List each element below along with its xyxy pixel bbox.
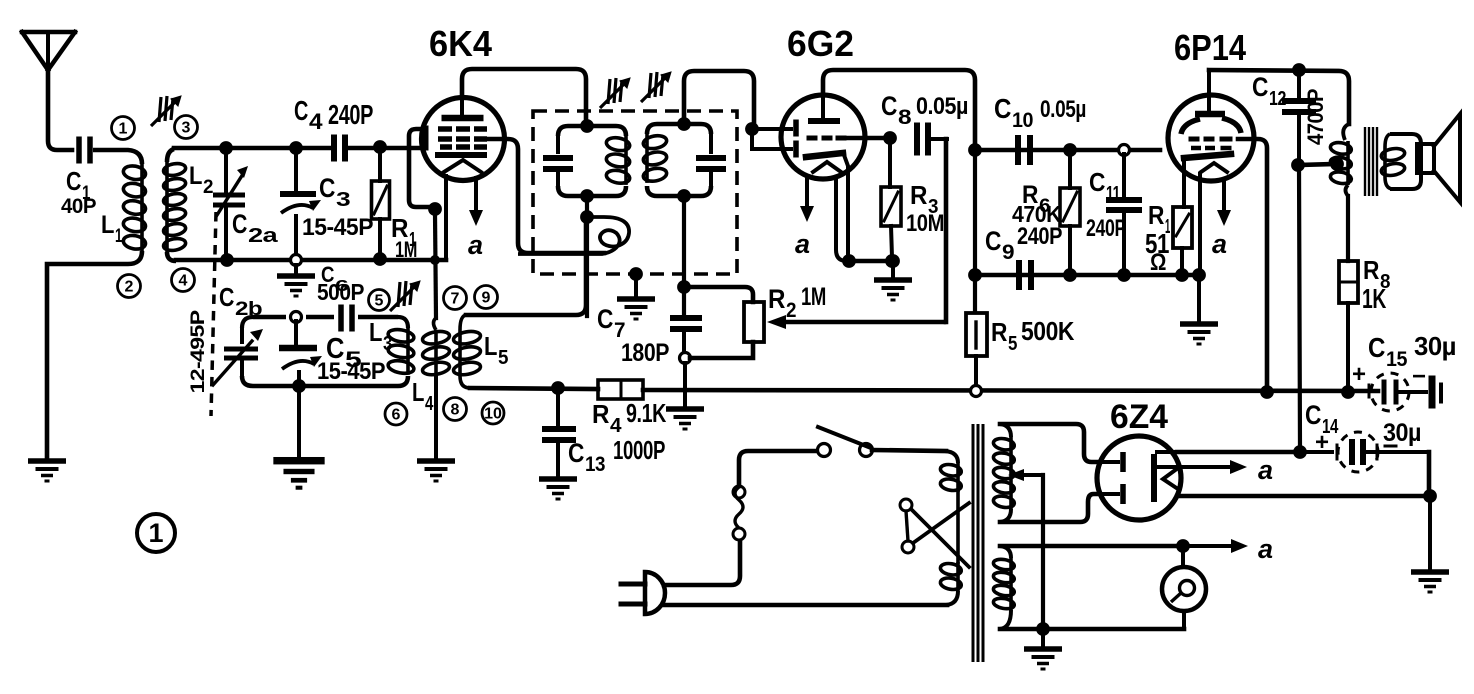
wire HV bottom to plate2 <box>1000 494 1099 522</box>
svg-text:−: − <box>1412 363 1426 390</box>
6P14 heater <box>1201 163 1227 172</box>
svg-text:C: C <box>319 173 335 203</box>
wire center tap to ground bus <box>1041 475 1045 629</box>
wire C7 to ground <box>683 363 687 407</box>
6K4 cathode <box>435 152 487 158</box>
svg-text:240P: 240P <box>1086 215 1126 242</box>
gang line (dashed) C2a-C2b <box>211 212 216 416</box>
junction R3 bottom <box>885 254 899 268</box>
open junction R5 bottom <box>971 386 982 397</box>
capacitor C14 <box>1304 432 1429 472</box>
terminal 4 <box>172 269 195 292</box>
HV secondary winding <box>993 424 1016 522</box>
wire tank2 top to 6G2 diode <box>684 71 754 127</box>
junction C12 bottom <box>1291 158 1305 172</box>
inductor L1 <box>122 164 146 251</box>
open junction C7 bottom <box>680 353 691 364</box>
svg-text:+: + <box>1352 361 1366 388</box>
wire L4 to ground <box>434 376 438 459</box>
open junction C3 bottom <box>291 255 302 266</box>
tube 6P14 envelope <box>1168 95 1254 181</box>
svg-text:3: 3 <box>336 189 350 211</box>
svg-text:R: R <box>991 317 1008 347</box>
wire 6P14 cathode to R7 <box>1182 163 1186 207</box>
svg-text:0.05µ: 0.05µ <box>916 93 968 120</box>
label R8 1K <box>1362 255 1390 314</box>
resistor R8 <box>1339 261 1358 388</box>
label 30u (C14) <box>1383 419 1421 447</box>
svg-text:a: a <box>1258 455 1273 485</box>
junction R8 bottom <box>1341 385 1355 399</box>
svg-text:C: C <box>881 91 897 121</box>
svg-text:5: 5 <box>375 293 384 310</box>
capacitor C7 <box>670 315 702 352</box>
power transformer core <box>973 424 983 662</box>
wire 6Z4 cathode out <box>1157 450 1177 454</box>
output transformer secondary <box>1380 134 1421 189</box>
6G2 filament arrow a <box>800 176 814 222</box>
svg-text:4: 4 <box>425 393 434 415</box>
svg-text:3: 3 <box>182 120 191 137</box>
junction tank2 top <box>677 117 691 131</box>
IF tank 1 bottom wire <box>558 186 626 196</box>
svg-text:a: a <box>795 229 810 259</box>
6G2 grid row <box>807 136 847 141</box>
wire C10 row <box>979 148 1160 153</box>
svg-text:1000P: 1000P <box>613 435 665 465</box>
svg-text:L: L <box>484 331 498 361</box>
ground (6P14 cathode rail) <box>1180 275 1218 346</box>
svg-text:a: a <box>1212 229 1227 259</box>
ground (power) <box>1024 629 1062 671</box>
svg-text:11: 11 <box>1106 183 1120 205</box>
junction R7 bottom <box>1175 268 1189 282</box>
trimmer capacitor C5 <box>279 321 322 382</box>
wire AVC from C8 <box>944 139 949 322</box>
svg-text:2: 2 <box>786 299 796 322</box>
resistor R3 <box>881 142 901 257</box>
capacitor C9 <box>1016 260 1034 290</box>
svg-text:a: a <box>1258 534 1273 564</box>
wire L5 top to detector (via x586) <box>466 222 586 315</box>
svg-text:240P: 240P <box>328 99 373 130</box>
junction 6G2 grid node <box>883 131 897 145</box>
wire antenna to C1 <box>48 70 72 150</box>
svg-text:a: a <box>468 230 483 260</box>
svg-text:4: 4 <box>610 415 622 437</box>
IF tank 2 capacitor <box>696 134 726 186</box>
svg-text:+: + <box>1315 429 1329 456</box>
wire C5 to ground <box>297 390 301 458</box>
label C13 1000P <box>568 435 665 476</box>
junction tank1 bottom <box>580 189 594 203</box>
svg-text:R: R <box>768 284 785 314</box>
inductor L3 <box>387 328 415 375</box>
svg-text:5: 5 <box>1008 333 1017 355</box>
junction R6 bottom <box>1063 268 1077 282</box>
junction R6 top <box>1063 143 1077 157</box>
svg-text:1K: 1K <box>1362 283 1386 314</box>
6K4 screen bracket wire <box>409 129 432 207</box>
terminal 1 <box>112 117 135 140</box>
svg-text:240P: 240P <box>1017 223 1062 250</box>
6P14 anode <box>1195 70 1225 117</box>
svg-text:Ω: Ω <box>1150 249 1166 276</box>
6K4 filament arrow a <box>469 178 483 226</box>
6Z4 plate 2 <box>1099 484 1126 504</box>
junction C12 top <box>1292 63 1306 77</box>
svg-text:R: R <box>1148 200 1165 230</box>
junction grid return 6P14 <box>1260 385 1274 399</box>
label R7 51ohm <box>1145 200 1170 276</box>
svg-text:R: R <box>592 399 610 429</box>
wire 6K4 plate lead up <box>462 69 586 126</box>
alignment mark (IF tank 1) <box>600 78 630 108</box>
terminal 6 <box>385 403 407 425</box>
svg-text:1: 1 <box>115 226 123 247</box>
terminal 9 <box>475 286 498 309</box>
svg-text:C: C <box>568 438 584 468</box>
svg-text:L: L <box>101 211 114 239</box>
svg-text:1: 1 <box>119 121 128 138</box>
junction 6P14 ground node <box>1192 268 1206 282</box>
voltage selector link <box>900 499 969 567</box>
capacitor C10 <box>1015 135 1033 165</box>
label C15 30u <box>1368 331 1456 371</box>
6P14 filament arrow a <box>1217 180 1231 226</box>
variable capacitor C2a <box>213 152 248 257</box>
wire rectifier return <box>1181 494 1426 499</box>
junction R2 top feed <box>677 280 691 294</box>
svg-text:2: 2 <box>125 279 134 296</box>
label C6 500P <box>317 262 364 305</box>
terminal 7 <box>444 287 467 310</box>
label C8 0.05u <box>881 91 968 129</box>
label C1 40P <box>61 166 96 218</box>
trimmer capacitor C3 <box>280 150 321 257</box>
wire L1 to ground <box>47 251 142 459</box>
IF tank 2 bottom wire <box>647 186 711 196</box>
svg-text:C: C <box>597 304 613 334</box>
wire C9 row <box>979 273 1198 278</box>
capacitor C13 <box>542 392 576 476</box>
svg-text:C: C <box>232 209 247 239</box>
label R4 9.1K <box>592 398 667 437</box>
wire tank2 to C7/R2 <box>682 196 686 315</box>
svg-text:C: C <box>1305 400 1321 430</box>
junction oscillator grid <box>428 202 442 216</box>
wire 6P14 plate top <box>1209 70 1349 124</box>
junction rail to cathode <box>430 255 440 265</box>
label C4 240P <box>294 95 373 134</box>
label C3 15-45P <box>302 173 373 241</box>
6G2 heater <box>813 162 841 172</box>
svg-text:1M: 1M <box>801 283 826 311</box>
output transformer primary <box>1330 124 1353 196</box>
svg-text:3: 3 <box>383 333 392 355</box>
wire AVC bus (R4 to C15) <box>643 390 1378 391</box>
junction C3 top <box>289 141 303 155</box>
open junction C11 top <box>1119 145 1130 156</box>
wire plug bottom to primary <box>664 603 947 608</box>
junction C2a bottom <box>220 253 234 267</box>
6Z4 heater <box>1163 468 1178 489</box>
label R2 1M <box>768 283 826 322</box>
wire HV top to plate1 <box>1000 424 1099 462</box>
wire cathode rail <box>849 259 893 264</box>
wire 6P14 heater down <box>1198 174 1202 271</box>
junction C9 left <box>968 268 982 282</box>
pilot lamp <box>1162 567 1206 611</box>
svg-text:10M: 10M <box>906 210 944 237</box>
capacitor C12 <box>1282 74 1316 162</box>
IF tank 1 coil <box>624 136 628 185</box>
wire feed to R2 <box>684 287 753 302</box>
resistor R6 <box>1060 154 1080 271</box>
svg-text:C: C <box>219 282 235 312</box>
label C7 180P <box>597 304 669 367</box>
svg-text:C: C <box>294 95 308 126</box>
junction C13 <box>551 381 565 395</box>
wire B+ vertical to rectifier <box>1299 165 1300 450</box>
svg-text:8: 8 <box>451 402 460 419</box>
svg-text:6K4: 6K4 <box>429 23 492 64</box>
inductor L5 <box>453 315 482 388</box>
svg-text:2a: 2a <box>248 225 279 247</box>
wire oscillator tank top <box>253 315 398 320</box>
label C11 240P <box>1086 167 1126 242</box>
6Z4 plate 1 <box>1099 452 1126 472</box>
capacitor C1 <box>76 137 93 164</box>
wire lamp top <box>1181 546 1185 567</box>
wire switch to primary <box>872 450 946 451</box>
capacitor C8 <box>914 123 947 156</box>
svg-text:C: C <box>994 93 1011 124</box>
wire B+ to C14 <box>1177 450 1296 455</box>
capacitor C6 plates <box>338 305 355 332</box>
svg-text:0.05µ: 0.05µ <box>1040 96 1086 123</box>
wire 6G2 plate up <box>823 70 975 146</box>
6P14 beam plates <box>1181 118 1241 134</box>
terminal 2 <box>118 275 141 298</box>
power transformer primary <box>940 451 963 605</box>
resistor R4 <box>598 380 643 399</box>
svg-text:C: C <box>1089 167 1106 197</box>
wire tank1 to tickler <box>585 196 589 222</box>
junction heater return <box>1423 489 1437 503</box>
svg-text:6Z4: 6Z4 <box>1110 398 1168 436</box>
ground (C7) <box>666 406 704 430</box>
junction C10 left <box>968 143 982 157</box>
6G2 diode plates <box>752 120 799 158</box>
junction C2a top <box>219 141 233 155</box>
junction 6G2 diode input <box>745 122 759 136</box>
junction cathode rail <box>842 254 856 268</box>
svg-text:8: 8 <box>898 106 912 129</box>
figure number 1 <box>137 514 175 552</box>
wire 6K4 oscillator grid to L4 <box>435 214 436 318</box>
ground (right/main) <box>1411 569 1449 593</box>
junction tank2 bottom <box>677 189 691 203</box>
svg-text:6: 6 <box>392 407 401 424</box>
IF tank 1 top wire <box>558 126 626 136</box>
mains plug <box>621 572 665 614</box>
terminal 5 <box>369 290 390 311</box>
label R5 500K <box>991 316 1075 355</box>
wire 6G2 grid right <box>846 136 886 141</box>
svg-text:R: R <box>910 180 928 210</box>
tube 6K4 envelope <box>422 98 505 181</box>
svg-text:4700P: 4700P <box>1303 89 1328 145</box>
junction pilot lamp <box>1176 539 1190 553</box>
svg-text:R: R <box>1363 255 1380 285</box>
IF tank 1 capacitor <box>543 136 573 186</box>
open junction C5 top <box>291 312 302 323</box>
svg-text:6G2: 6G2 <box>787 23 854 64</box>
svg-text:15-45P: 15-45P <box>302 214 373 241</box>
wire to right ground <box>1428 496 1432 570</box>
label C5 15-45P <box>317 333 385 385</box>
ground (C6 node) <box>277 265 315 298</box>
IF shield box (dashed) <box>533 111 737 274</box>
6G2 anode <box>808 95 840 124</box>
wire C1 to L1 <box>93 150 142 164</box>
oscillator tickler coil <box>518 217 629 254</box>
alignment mark (IF tank 2) <box>641 72 671 102</box>
6Z4 filament arrow a <box>1158 460 1247 474</box>
HV center tap arrow <box>1008 469 1043 481</box>
wire AVC bus (L5 bottom rail) <box>470 388 598 389</box>
junction C14 left <box>1293 445 1307 459</box>
variable capacitor C2b <box>213 328 263 385</box>
label R1 1M <box>391 213 417 262</box>
junction tickler top <box>580 210 594 224</box>
junction C5 bottom <box>292 379 306 393</box>
6K4 grid rows <box>438 126 487 150</box>
svg-text:1: 1 <box>148 518 163 548</box>
svg-text:15: 15 <box>1386 348 1408 371</box>
filament winding <box>993 546 1015 629</box>
capacitor C4 <box>331 135 348 162</box>
capacitor C15 <box>1369 373 1443 411</box>
svg-text:6P14: 6P14 <box>1174 27 1246 68</box>
svg-text:L: L <box>369 317 383 347</box>
svg-text:7: 7 <box>451 291 460 308</box>
svg-text:4: 4 <box>179 273 188 290</box>
ground (antenna coil) <box>28 458 66 482</box>
resistor R7 <box>1173 207 1192 271</box>
capacitor C11 <box>1106 154 1142 271</box>
junction C11 bottom <box>1117 268 1131 282</box>
inductor L2 <box>163 149 187 261</box>
svg-text:500P: 500P <box>317 279 364 305</box>
svg-text:C: C <box>1252 72 1268 102</box>
wire primary to R8 <box>1346 196 1350 261</box>
wire 6G2 cathode to ground rail <box>836 155 848 261</box>
IF tank 2 top wire <box>647 124 711 134</box>
svg-text:10: 10 <box>484 406 502 423</box>
6P14 grid rows <box>1189 137 1233 151</box>
junction L5 feed <box>585 222 589 316</box>
svg-text:4: 4 <box>309 109 323 134</box>
svg-text:1M: 1M <box>395 237 417 262</box>
resistor R1 <box>372 152 390 256</box>
output transformer core <box>1365 127 1377 196</box>
6P14 cathode <box>1184 154 1231 158</box>
svg-text:30µ: 30µ <box>1383 419 1421 447</box>
terminal 8 <box>444 398 467 421</box>
svg-text:13: 13 <box>585 453 605 476</box>
svg-text:C: C <box>1368 332 1385 363</box>
ground (L4) <box>417 458 455 482</box>
6K4 heater <box>444 160 481 172</box>
ground (C13) <box>539 476 577 500</box>
alignment mark (L2) <box>151 96 181 126</box>
wire C14 to ground <box>1427 452 1432 496</box>
wire B+ line to R5 <box>973 146 977 312</box>
wire C12 to output transformer tap <box>1298 164 1334 165</box>
ground tap on shield <box>617 267 655 320</box>
wire filament to a <box>1000 539 1248 553</box>
power switch <box>818 427 873 457</box>
svg-text:12-495P: 12-495P <box>188 310 209 394</box>
6K4 anode <box>442 97 484 121</box>
ground (6G2) <box>874 261 912 302</box>
6K4 grid side-rod <box>424 126 429 151</box>
inductor L4 <box>422 318 451 377</box>
label R6 470K <box>1012 181 1062 227</box>
antenna <box>22 32 75 70</box>
svg-text:2: 2 <box>203 177 213 198</box>
svg-text:12: 12 <box>1269 88 1286 110</box>
svg-text:15-45P: 15-45P <box>317 358 385 385</box>
svg-text:10: 10 <box>1012 109 1033 132</box>
speaker <box>1417 114 1460 202</box>
svg-text:L: L <box>412 377 424 407</box>
terminal 10 <box>482 402 504 424</box>
svg-text:C: C <box>985 226 1001 256</box>
svg-text:9: 9 <box>1002 241 1014 264</box>
6G2 cathode <box>806 153 843 157</box>
wire lamp bottom <box>1182 611 1186 629</box>
svg-text:L: L <box>189 162 202 190</box>
wire 6K4 cathode down <box>444 176 448 259</box>
svg-text:40P: 40P <box>61 195 96 218</box>
wire grid line top (L2 to C4) <box>174 146 331 151</box>
junction tank1 top <box>580 119 594 133</box>
junction ground bus <box>1036 622 1050 636</box>
junction ground stem <box>886 254 900 268</box>
ground (oscillator tank) <box>273 457 324 490</box>
terminal 3 <box>175 116 198 139</box>
wire C4 to 6K4 grid <box>348 146 426 151</box>
fuse <box>733 486 745 540</box>
svg-text:2b: 2b <box>235 299 262 320</box>
wire plug top to fuse <box>664 540 740 585</box>
junction transformer tap <box>1330 157 1344 171</box>
wire fuse to switch <box>739 451 817 486</box>
wire bottom rail (L2/C2a/C3/R1 returns) <box>176 258 446 263</box>
junction R1 bottom <box>373 252 387 266</box>
resistor R5 <box>966 313 987 385</box>
svg-text:180P: 180P <box>621 339 669 367</box>
svg-text:9.1K: 9.1K <box>626 398 667 428</box>
alignment mark (L3) <box>390 281 420 311</box>
label R3 10M <box>906 180 944 237</box>
tube 6Z4 envelope <box>1097 436 1181 520</box>
wire 6K4 screen lead right <box>489 139 604 253</box>
label C10 0.05u <box>994 93 1086 132</box>
